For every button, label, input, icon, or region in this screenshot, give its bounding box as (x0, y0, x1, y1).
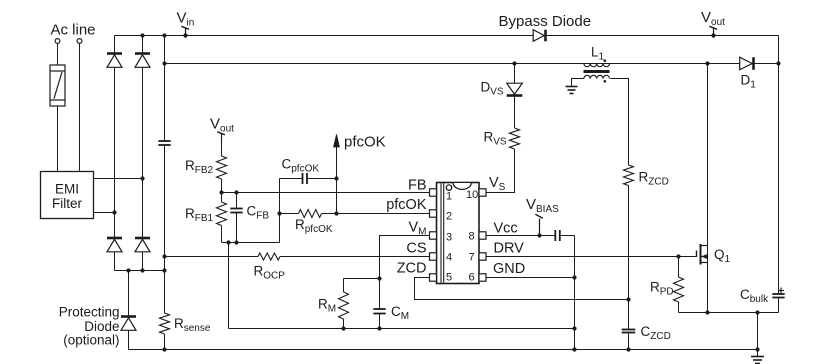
wire: CZCD bottom lead (628, 333, 630, 350)
svg-text:Bypass Diode: Bypass Diode (499, 13, 592, 30)
resistor RFB2 (217, 156, 227, 179)
wire: VM net (pin 3 left then down) (380, 236, 430, 310)
resistor RFB1 (217, 202, 227, 226)
op-amp U1 body (controller IC) (437, 183, 480, 284)
wire: DRV net (pin 7 to gate) (486, 256, 697, 258)
label: RFB1 (185, 206, 214, 224)
inductor L1 secondary (584, 75, 610, 78)
label: Cbulk (740, 287, 769, 305)
node: CpfcOK right junction (334, 176, 338, 180)
wire: right rail down to Cbulk (778, 36, 780, 295)
label: CS pin (406, 241, 426, 257)
label: Q1 (714, 247, 731, 265)
node: FB divider node (219, 190, 223, 194)
node: VM column / RM link (377, 276, 381, 280)
wire: source line to Cbulk (679, 312, 779, 314)
U1 pin number 2 (446, 211, 452, 223)
wire: Vcc net (pin 8 to bias cap) (486, 235, 555, 237)
U1 pin number 6 (469, 272, 475, 284)
L1 core (584, 70, 610, 73)
diode: bypass diode (533, 30, 545, 42)
svg-text:Ac line: Ac line (51, 22, 96, 39)
L1 phasing dot secondary (604, 80, 607, 83)
svg-text:CS: CS (406, 241, 426, 257)
tick: VBIAS (535, 214, 543, 235)
wire: RZCD bottom (628, 186, 630, 330)
wire: CM bottom lead (379, 314, 381, 329)
wire: Q1 drain (707, 64, 709, 246)
U1 pin 3 stub (430, 232, 437, 239)
svg-text:10: 10 (466, 189, 478, 201)
svg-text:(optional): (optional) (63, 333, 119, 348)
wire: EMI filter bottom output (94, 212, 115, 214)
label: Diode (84, 319, 119, 334)
node: DRV / RPD junction (676, 254, 680, 258)
wire: CS net (ROCP to pin 4) (280, 256, 430, 258)
node: mid bus / RM (341, 326, 345, 330)
svg-text:3: 3 (446, 232, 452, 244)
node: junction top rail / bridge column 2 (140, 33, 144, 37)
wire: L1 secondary left to ground (572, 79, 584, 87)
capacitor CFB (230, 209, 242, 213)
diode bridge D-a (upper left) (107, 54, 122, 68)
node: divider bottom / down wire (226, 240, 230, 244)
node: mid bus / CM (377, 326, 381, 330)
resistor RVS (510, 128, 520, 149)
label: Rsense (174, 316, 211, 334)
wire: RM top lead (343, 279, 345, 293)
terminal: Ac line right (77, 39, 82, 44)
wire: pfcOK net (to pin 2) (322, 213, 430, 215)
node: RpfcOK right junction (334, 211, 338, 215)
wire: RFB2-RFB1 link (221, 179, 223, 202)
label: Vcc pin (494, 221, 518, 237)
label: Vout (top) (701, 9, 725, 28)
diode: protecting diode (121, 317, 136, 331)
resistor RpfcOK (299, 210, 322, 218)
wire: RPD bottom lead (678, 302, 680, 313)
svg-text:EMI: EMI (55, 182, 79, 197)
node: bridge col2 bottom junction (140, 268, 144, 272)
wire: bridge bottom line (115, 270, 165, 272)
node: RpfcOK left junction (277, 211, 281, 215)
wire: pfcOK arrow riser (336, 146, 338, 214)
svg-text:FB: FB (408, 178, 427, 194)
U1 pin 4 stub (430, 253, 437, 260)
U1 pin number 5 (446, 272, 452, 284)
label: VS pin (489, 175, 506, 193)
wire: protecting diode column (128, 271, 130, 317)
resistor RPD (674, 277, 684, 302)
node: junction top rail / Vin column (162, 33, 166, 37)
wire: CpfcOK right lead (307, 178, 337, 180)
svg-text:2: 2 (446, 211, 452, 223)
wire: ZCD net (pin 5 routed under IC) (415, 278, 629, 300)
capacitor CpfcOK (303, 173, 308, 184)
wire: Ac line lead 2 to EMI filter (79, 44, 81, 172)
node: protecting diode junction (126, 268, 130, 272)
label: L1 (591, 45, 605, 63)
svg-text:DRV: DRV (494, 241, 525, 257)
wire: DVS top lead (514, 64, 516, 84)
wire: down wire to mid bus (228, 243, 230, 329)
wire: second rail (rectified bus to L1 and D1) (165, 63, 779, 65)
label: D1 (741, 73, 757, 91)
label: Bypass Diode (499, 13, 592, 30)
U1 inner double line (441, 183, 444, 282)
wire: bridge column 2 (x=142.5) (142, 36, 144, 271)
svg-text:5: 5 (446, 272, 452, 284)
U1 pin-1 marker (446, 185, 451, 190)
resistor RM (339, 292, 349, 319)
wire: Q1 source (707, 246, 709, 313)
label: pfcOK pin (386, 197, 427, 213)
polarity + of Cbulk (778, 288, 784, 294)
wire: Ac line lead 1 (fuse top) (57, 44, 59, 66)
node: GND junction (572, 275, 576, 279)
svg-text:Protecting: Protecting (59, 305, 120, 320)
svg-text:Filter: Filter (52, 196, 83, 211)
terminal: Ac line left (55, 39, 60, 44)
tick: Vout tap (709, 26, 717, 37)
node: Q1 source junction (705, 310, 709, 314)
node: EMI top output junction (140, 176, 144, 180)
ground: output ground (751, 357, 764, 364)
label: RPD (650, 280, 674, 298)
U1 pin 8 stub (479, 232, 486, 239)
label: EMI (55, 182, 79, 197)
svg-text:1: 1 (446, 191, 452, 203)
wire: RpfcOK left lead (280, 213, 299, 215)
resistor Rsense (160, 313, 170, 334)
node: junction second rail / Q1 drain (705, 61, 709, 65)
svg-text:Vcc: Vcc (494, 221, 518, 237)
U1 pin number 4 (446, 252, 452, 264)
node: bottom bus / sense (162, 347, 166, 351)
node: mid bus / Vbias column (572, 326, 576, 330)
U1 pin 1 stub (430, 189, 437, 196)
svg-text:ZCD: ZCD (397, 261, 427, 277)
label: DVS (481, 80, 504, 98)
svg-text:6: 6 (469, 272, 475, 284)
label: GND pin (493, 261, 525, 277)
label: ZCD pin (397, 261, 427, 277)
wire: RPD top lead (678, 257, 680, 278)
node: ZCD / Rzcd column junction (626, 297, 630, 301)
label: CM (391, 304, 409, 322)
wire: EMI filter top output (94, 178, 143, 180)
wire: Rsense bottom (164, 334, 166, 350)
wire: top Vin/Vout rail (115, 35, 779, 37)
U1 pin number 8 (469, 231, 475, 243)
capacitor Cbulk (772, 294, 784, 298)
diode DVS (507, 83, 523, 95)
label: CpfcOK (282, 157, 320, 175)
label: ROCP (254, 264, 286, 282)
svg-text:pfcOK: pfcOK (344, 134, 386, 151)
wire: output ground drop (757, 313, 759, 357)
node: bottom bus / output ground (755, 347, 759, 351)
label: CFB (247, 204, 270, 222)
svg-text:GND: GND (493, 261, 525, 277)
wire: protecting diode to bottom bus (128, 331, 130, 350)
L1 phasing dot primary (604, 59, 607, 62)
label: RFB2 (185, 158, 214, 176)
wire: bottom ground bus (129, 349, 758, 351)
wire: CpfcOK left lead (280, 178, 303, 180)
label: (optional) (63, 333, 119, 348)
node: junction second rail start (162, 61, 166, 65)
U1 pin number 7 (469, 252, 475, 264)
label: pfcOK (arrow) (344, 134, 386, 151)
EMI filter box (41, 172, 94, 219)
wire: Vbias/GND column (x=575) (574, 236, 576, 350)
wire: RM top link (344, 278, 380, 280)
node: junction second rail / right rail (776, 61, 780, 65)
wire: Vin column (x=164.5) (164, 36, 166, 142)
label: Vout (divider) (210, 116, 234, 135)
label: Ac line (51, 22, 96, 39)
node: bottom bus / Vbias column (572, 347, 576, 351)
capacitor: Vbias decoupling cap (555, 230, 560, 241)
capacitor CZCD (622, 330, 636, 333)
svg-text:8: 8 (469, 231, 475, 243)
label: VBIAS (526, 196, 559, 215)
transistor Q1 (MOSFET) (697, 244, 708, 265)
node: junction second rail / DVS column (512, 61, 516, 65)
resistor ROCP (258, 253, 280, 260)
node: Vin column / ROCP (162, 254, 166, 258)
wire: bridge column 1 (x=114.5) (114, 36, 116, 271)
U1 pin number 3 (446, 232, 452, 244)
wire: CFB bottom lead (236, 213, 238, 243)
wire: CFB top lead (236, 193, 238, 209)
U1 pin 5 stub (430, 274, 437, 281)
U1 pin number 10 (466, 189, 478, 201)
node: VBIAS tap (537, 233, 541, 237)
label: RpfcOK (295, 217, 333, 235)
node: CFB top junction (234, 190, 238, 194)
label: RVS (484, 130, 507, 148)
diode D1 (740, 57, 754, 70)
svg-text:7: 7 (469, 252, 475, 264)
svg-text:4: 4 (446, 252, 452, 264)
wire: ROCP left lead (165, 256, 259, 258)
wire: pfcOK RC left column (279, 179, 281, 243)
label: CZCD (641, 324, 671, 342)
wire: RVS to DVS (514, 97, 516, 129)
wire: mid ground bus (229, 328, 575, 330)
wire: FB net (divider to pin 1) (222, 192, 430, 194)
wire: RFB1 bottom lead (221, 226, 223, 243)
node: source line / output ground (755, 310, 759, 314)
node: EMI bottom output junction (112, 210, 116, 214)
diode bridge D-c (lower left) (107, 238, 122, 252)
wire: VS net (pin 10 to RVS column) (486, 149, 515, 193)
label: Vin (177, 10, 195, 29)
U1 pin 2 stub (430, 210, 437, 217)
tick: Vout divider tap (217, 132, 225, 141)
U1 pin 10 stub (479, 189, 486, 196)
label: RM (318, 297, 336, 315)
node: divider bottom / CFB (234, 240, 238, 244)
svg-text:pfcOK: pfcOK (386, 197, 427, 213)
wire: Vin column lower (164, 145, 166, 313)
node: bridge bottom / sense column (162, 268, 166, 272)
label: DRV pin (494, 241, 525, 257)
fuse F1 body (50, 65, 65, 106)
label: RZCD (639, 170, 669, 188)
wire: RFB2 top lead (221, 136, 223, 156)
wire: fuse bottom to EMI filter (57, 106, 59, 172)
capacitor CM (373, 309, 385, 314)
node: bottom bus / Czcd column (626, 347, 630, 351)
U1 pin 6 stub (479, 274, 486, 281)
wire: Cbulk bottom lead (778, 298, 780, 313)
U1 pin number 1 (446, 191, 452, 203)
node: Vin tap on top rail (183, 33, 187, 37)
ground: L1 secondary ground (566, 87, 578, 94)
resistor RZCD (624, 165, 634, 186)
U1 pin 7 stub (479, 253, 486, 260)
label: FB pin (408, 178, 427, 194)
U1 notch (453, 183, 471, 189)
node: Vout tap on top rail (711, 33, 715, 37)
label: Filter (52, 196, 83, 211)
label: VM pin (408, 220, 426, 238)
capacitor: input filter cap (158, 141, 170, 145)
wire: L1 secondary right (610, 79, 628, 166)
wire: divider bottom link (222, 242, 280, 244)
diode bridge D-b (upper right) (135, 54, 150, 68)
tick: Vin tap (181, 26, 189, 37)
wire: RM bottom lead (343, 319, 345, 329)
wire: bias cap to Vbias column (560, 235, 575, 237)
inductor L1 primary (584, 64, 610, 67)
diode bridge D-d (lower right) (135, 238, 150, 252)
wire: GND net (pin 6 right) (486, 277, 575, 279)
label: Protecting (59, 305, 120, 320)
arrow: pfcOK output (334, 135, 340, 148)
